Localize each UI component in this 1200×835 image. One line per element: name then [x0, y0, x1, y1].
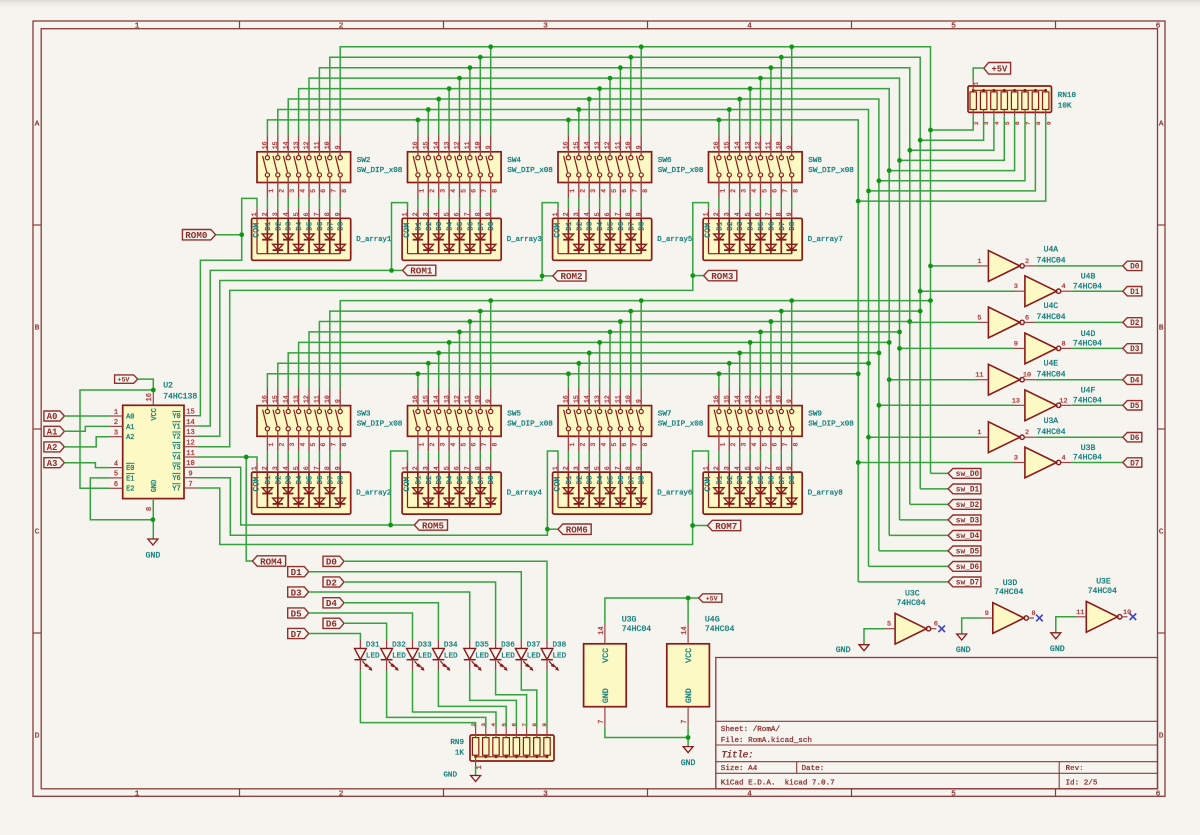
svg-text:SW8: SW8: [808, 157, 822, 165]
svg-text:U4A: U4A: [1044, 246, 1059, 255]
svg-text:D1: D1: [265, 475, 273, 484]
svg-text:1: 1: [419, 443, 426, 447]
svg-text:5: 5: [293, 466, 300, 470]
svg-text:3: 3: [289, 189, 296, 193]
svg-text:5: 5: [611, 443, 618, 447]
svg-text:9: 9: [1014, 340, 1018, 348]
label D6 (output): [1123, 433, 1142, 442]
svg-text:6: 6: [511, 723, 518, 727]
svg-text:A: A: [1159, 121, 1164, 129]
svg-text:6: 6: [1156, 23, 1161, 31]
svg-text:SW_DIP_x08: SW_DIP_x08: [658, 167, 704, 175]
svg-text:SW_DIP_x08: SW_DIP_x08: [808, 167, 854, 175]
svg-text:A0: A0: [126, 413, 134, 421]
diode array D_array4: [402, 462, 543, 514]
svg-text:7: 7: [782, 443, 789, 447]
svg-text:4: 4: [734, 466, 741, 470]
wire inverter output D0: [1035, 265, 1123, 267]
svg-text:D7: D7: [478, 476, 486, 485]
diode array D_array8: [703, 462, 843, 514]
svg-text:Y7: Y7: [172, 485, 180, 493]
svg-text:5: 5: [1004, 121, 1011, 125]
svg-text:KiCad E.D.A. kicad 7.0.7: KiCad E.D.A. kicad 7.0.7: [721, 779, 835, 787]
LED D36: [490, 640, 516, 671]
svg-text:11: 11: [314, 141, 321, 149]
svg-text:15: 15: [272, 141, 279, 149]
svg-text:5: 5: [443, 466, 450, 470]
svg-text:sw_D0: sw_D0: [956, 471, 980, 479]
svg-text:1: 1: [268, 189, 275, 193]
svg-text:D1: D1: [1130, 289, 1140, 297]
svg-text:SW_DIP_x08: SW_DIP_x08: [658, 421, 704, 429]
svg-text:16: 16: [563, 141, 570, 149]
label D0 (to LED): [323, 556, 344, 566]
svg-text:13: 13: [443, 395, 450, 403]
svg-text:Y2: Y2: [172, 434, 180, 442]
svg-text:4: 4: [433, 212, 440, 216]
svg-text:D7: D7: [327, 222, 335, 231]
junction +5V branch: [151, 388, 156, 393]
svg-text:14: 14: [433, 395, 440, 403]
svg-text:Y0: Y0: [172, 413, 180, 421]
svg-text:D_array2: D_array2: [356, 490, 391, 498]
svg-text:D3: D3: [737, 222, 745, 231]
svg-text:Y6: Y6: [172, 475, 180, 483]
svg-text:12: 12: [755, 395, 762, 403]
wire bus sw_D1 row2: [330, 311, 920, 388]
svg-text:sw_D5: sw_D5: [956, 549, 980, 557]
svg-text:SW9: SW9: [808, 411, 822, 419]
DIP switch SW5: [408, 389, 554, 452]
svg-text:D7: D7: [628, 222, 636, 231]
svg-text:D3: D3: [436, 222, 444, 231]
wire Y5 net to ROM5 / D_array4 COM: [197, 467, 391, 525]
svg-text:D8: D8: [639, 222, 647, 231]
svg-text:8: 8: [475, 212, 482, 216]
svg-text:6: 6: [621, 443, 628, 447]
svg-text:D: D: [35, 733, 40, 741]
label ROM5: [414, 520, 447, 530]
svg-text:4: 4: [282, 212, 289, 216]
junction GND units: [686, 735, 691, 740]
svg-text:74HC04: 74HC04: [705, 625, 735, 634]
svg-text:7: 7: [331, 443, 338, 447]
svg-text:U4B: U4B: [1081, 273, 1096, 282]
svg-text:8: 8: [776, 466, 783, 470]
svg-text:U4C: U4C: [1044, 302, 1059, 311]
svg-text:D6: D6: [618, 476, 626, 485]
svg-text:6: 6: [604, 466, 611, 470]
svg-text:11: 11: [464, 141, 471, 149]
resistor network RN9 1K: [450, 723, 554, 770]
svg-text:D6: D6: [317, 476, 325, 485]
svg-text:D4: D4: [447, 221, 455, 230]
wire bus sw_D5 row2: [288, 353, 879, 389]
wire RN10 pin9 to sw_D7: [858, 116, 1045, 201]
svg-text:7: 7: [314, 212, 321, 216]
wire bus sw_D5 row1: [288, 99, 879, 551]
svg-text:D38: D38: [553, 642, 567, 650]
svg-text:4: 4: [450, 443, 457, 447]
label A1: [44, 426, 65, 436]
wire sw_D1 to inverter input: [920, 290, 1014, 292]
svg-text:D6: D6: [467, 476, 475, 485]
wire Y7 net to ROM7 / D_array8 COM: [197, 488, 692, 545]
svg-text:SW6: SW6: [658, 157, 672, 165]
svg-text:D3: D3: [286, 222, 294, 231]
label D2 (output): [1123, 318, 1142, 327]
svg-text:13: 13: [186, 429, 194, 437]
wire to label sw_D4: [889, 534, 948, 536]
svg-text:74HC138: 74HC138: [163, 392, 197, 401]
svg-text:11: 11: [1076, 609, 1084, 617]
svg-text:3: 3: [289, 443, 296, 447]
IC U2 74HC138 decoder: [110, 382, 198, 512]
svg-text:D7: D7: [779, 476, 787, 485]
svg-text:2: 2: [262, 466, 269, 470]
svg-text:9: 9: [635, 399, 642, 403]
wire U2 GND / E1: [90, 478, 153, 520]
svg-text:1: 1: [720, 189, 727, 193]
title block: [716, 658, 1158, 789]
ground symbol U3E: [1051, 633, 1061, 639]
LED D38: [541, 640, 567, 671]
svg-text:U3C: U3C: [905, 590, 920, 599]
wire bus sw_D2 row1: [319, 68, 909, 505]
svg-text:11: 11: [314, 395, 321, 403]
svg-text:1: 1: [402, 212, 409, 216]
no-connect U3C output: [938, 625, 945, 632]
svg-text:8: 8: [642, 189, 649, 193]
svg-text:D5: D5: [1130, 403, 1140, 411]
svg-text:ROM3: ROM3: [711, 271, 734, 282]
svg-text:13: 13: [594, 395, 601, 403]
svg-text:7: 7: [314, 466, 321, 470]
svg-text:2: 2: [563, 466, 570, 470]
svg-text:8: 8: [324, 466, 331, 470]
svg-text:2: 2: [563, 212, 570, 216]
wire to label sw_D2: [910, 503, 948, 505]
diode array D_array5: [552, 208, 692, 260]
svg-text:D4: D4: [748, 221, 756, 230]
svg-text:74HC04: 74HC04: [1037, 313, 1066, 322]
svg-text:D6: D6: [467, 222, 475, 231]
inverter U3E 74HC04: [1076, 578, 1132, 633]
wire inverter output D5: [1072, 404, 1123, 406]
svg-text:1: 1: [569, 443, 576, 447]
svg-text:U4G: U4G: [705, 616, 720, 625]
svg-text:GND: GND: [443, 772, 457, 780]
svg-text:9: 9: [635, 145, 642, 149]
svg-text:SW_DIP_x08: SW_DIP_x08: [507, 167, 553, 175]
svg-text:9: 9: [485, 212, 492, 216]
svg-text:VCC: VCC: [602, 648, 611, 663]
wire sw_D5 to inverter input: [879, 404, 1015, 406]
svg-text:D3: D3: [291, 587, 303, 598]
svg-text:COM: COM: [251, 477, 261, 492]
svg-text:7: 7: [765, 212, 772, 216]
wire A1 to U2: [64, 426, 109, 431]
svg-text:A2: A2: [47, 443, 58, 453]
svg-text:12: 12: [755, 141, 762, 149]
wire RN10 pin3 to sw_D1: [920, 116, 983, 140]
svg-text:2: 2: [262, 212, 269, 216]
label D7 (to LED): [288, 628, 309, 638]
svg-text:14: 14: [583, 141, 590, 149]
label D2 (to LED): [323, 577, 344, 587]
svg-text:1: 1: [476, 765, 484, 769]
svg-text:D7: D7: [1130, 460, 1140, 468]
junction GND: [151, 517, 156, 522]
svg-text:7: 7: [615, 212, 622, 216]
svg-text:9: 9: [635, 212, 642, 216]
svg-text:2: 2: [713, 466, 720, 470]
svg-text:D2: D2: [275, 222, 283, 231]
inverter U3A 74HC04: [977, 417, 1065, 453]
svg-text:5: 5: [310, 443, 317, 447]
svg-text:3: 3: [590, 443, 597, 447]
svg-text:D5: D5: [307, 222, 315, 231]
svg-text:D3: D3: [1130, 346, 1140, 354]
DIP switch SW6: [558, 135, 704, 198]
svg-text:4: 4: [282, 466, 289, 470]
svg-text:2: 2: [339, 23, 344, 31]
svg-text:1: 1: [977, 429, 981, 437]
svg-text:7: 7: [1025, 121, 1032, 125]
svg-text:4: 4: [734, 212, 741, 216]
svg-text:D34: D34: [444, 642, 458, 650]
svg-text:U4E: U4E: [1044, 359, 1059, 368]
label A2: [44, 442, 65, 452]
wire bus sw_D0 row1: [340, 47, 930, 474]
svg-text:COM: COM: [703, 223, 713, 238]
svg-text:16: 16: [412, 395, 419, 403]
wire LED D32 cathode to RN9 pin3: [387, 671, 486, 728]
svg-text:5: 5: [951, 790, 956, 798]
svg-text:1K: 1K: [455, 749, 465, 757]
svg-text:LED: LED: [392, 652, 406, 660]
svg-text:D4: D4: [597, 221, 605, 230]
svg-text:ROM5: ROM5: [422, 520, 445, 531]
svg-text:3: 3: [983, 121, 990, 125]
svg-text:D31: D31: [366, 642, 380, 650]
svg-text:1: 1: [251, 466, 258, 470]
svg-text:COM: COM: [552, 477, 562, 492]
label D1 (to LED): [288, 567, 309, 577]
svg-text:D6: D6: [768, 222, 776, 231]
wire to label sw_D5: [879, 550, 948, 552]
power label +5V (units): [699, 594, 722, 602]
no-connect U3E output: [1130, 614, 1137, 621]
svg-text:7: 7: [464, 466, 471, 470]
svg-text:3: 3: [724, 212, 731, 216]
svg-text:3: 3: [423, 466, 430, 470]
svg-text:3: 3: [440, 443, 447, 447]
svg-text:8: 8: [642, 443, 649, 447]
svg-text:9: 9: [485, 466, 492, 470]
svg-text:C: C: [1159, 529, 1164, 537]
label ROM1: [403, 265, 436, 275]
label ROM2: [553, 271, 586, 281]
svg-text:15: 15: [724, 141, 731, 149]
svg-text:7: 7: [464, 212, 471, 216]
label ROM0: [182, 230, 215, 240]
svg-text:A1: A1: [126, 424, 134, 432]
svg-text:9: 9: [334, 145, 341, 149]
svg-text:4: 4: [583, 212, 590, 216]
svg-text:4: 4: [747, 23, 752, 31]
svg-text:3: 3: [480, 723, 487, 727]
svg-text:sw_D4: sw_D4: [956, 533, 980, 541]
svg-text:COM: COM: [703, 477, 713, 492]
svg-text:U3G: U3G: [622, 616, 637, 625]
junction +5V units: [686, 596, 691, 601]
LED D31: [355, 640, 381, 671]
svg-text:D3: D3: [286, 476, 294, 485]
svg-text:6: 6: [772, 189, 779, 193]
svg-text:D2: D2: [727, 476, 735, 485]
svg-text:D5: D5: [291, 608, 303, 619]
svg-text:16: 16: [713, 141, 720, 149]
wire sw_D0 to inverter input: [931, 265, 979, 267]
svg-text:D1: D1: [415, 221, 423, 230]
svg-text:1: 1: [977, 258, 981, 266]
svg-text:15: 15: [423, 395, 430, 403]
label sw_D2: [948, 500, 981, 510]
svg-text:2: 2: [412, 466, 419, 470]
svg-text:SW_DIP_x08: SW_DIP_x08: [357, 421, 403, 429]
svg-text:sw_D1: sw_D1: [956, 487, 980, 495]
svg-text:10: 10: [1023, 372, 1031, 380]
svg-text:U4D: U4D: [1081, 330, 1096, 339]
svg-text:D5: D5: [608, 476, 616, 485]
svg-text:2: 2: [412, 212, 419, 216]
svg-text:9: 9: [985, 610, 989, 618]
svg-text:A0: A0: [47, 412, 58, 422]
wire inverter output D1: [1072, 290, 1123, 292]
svg-text:D1: D1: [716, 221, 724, 230]
inverter U4E 74HC04: [975, 359, 1065, 395]
svg-text:2: 2: [114, 419, 118, 427]
svg-text:COM: COM: [251, 223, 261, 238]
svg-text:10: 10: [625, 141, 632, 149]
svg-text:GND: GND: [151, 480, 159, 492]
svg-text:D6: D6: [326, 619, 337, 630]
wire LED D35 cathode to RN9 pin6: [470, 671, 517, 728]
svg-text:10: 10: [324, 141, 331, 149]
wire to label sw_D0: [931, 472, 949, 474]
svg-text:14: 14: [282, 141, 289, 149]
svg-text:D4: D4: [597, 475, 605, 484]
svg-text:SW_DIP_x08: SW_DIP_x08: [357, 167, 403, 175]
svg-text:12: 12: [454, 395, 461, 403]
svg-text:3: 3: [741, 189, 748, 193]
svg-text:2: 2: [279, 443, 286, 447]
svg-text:74HC04: 74HC04: [1088, 587, 1117, 596]
wire +5V to U2 VCC and E2: [138, 379, 154, 392]
svg-text:6: 6: [320, 443, 327, 447]
svg-text:SW7: SW7: [658, 411, 672, 419]
wire ground to U3D input: [962, 618, 983, 634]
svg-text:ROM4: ROM4: [260, 556, 283, 567]
svg-text:13: 13: [443, 141, 450, 149]
diode array D_array1: [251, 208, 392, 260]
svg-text:LED: LED: [366, 652, 380, 660]
svg-text:2: 2: [279, 189, 286, 193]
svg-text:12: 12: [303, 141, 310, 149]
svg-text:9: 9: [541, 723, 548, 727]
wire inverter output D4: [1035, 379, 1123, 381]
svg-text:sw_D6: sw_D6: [956, 564, 980, 572]
svg-text:16: 16: [262, 141, 269, 149]
svg-text:8: 8: [341, 189, 348, 193]
svg-text:Y1: Y1: [172, 423, 180, 431]
svg-text:LED: LED: [501, 652, 515, 660]
svg-text:74HC04: 74HC04: [1073, 282, 1102, 291]
label D4 (to LED): [323, 598, 344, 608]
svg-text:LED: LED: [444, 652, 458, 660]
wire RN10 pin5 to sw_D3: [900, 116, 1005, 160]
svg-text:D_array5: D_array5: [657, 236, 692, 244]
wire bus sw_D1 row1: [330, 57, 920, 489]
wire Y0 net to ROM0 / D_array1 COM: [197, 235, 242, 416]
svg-text:B: B: [1159, 325, 1164, 333]
svg-text:9: 9: [1045, 121, 1052, 125]
svg-text:9: 9: [786, 212, 793, 216]
svg-text:11: 11: [186, 450, 194, 458]
svg-text:3: 3: [440, 189, 447, 193]
svg-text:8: 8: [1032, 610, 1036, 618]
svg-text:12: 12: [303, 395, 310, 403]
svg-text:2: 2: [1025, 429, 1029, 437]
svg-text:D33: D33: [418, 642, 432, 650]
wire LED D36 cathode to RN9 pin7: [496, 671, 527, 728]
svg-text:74HC04: 74HC04: [1073, 454, 1102, 463]
svg-text:D2: D2: [576, 222, 584, 231]
svg-text:E2: E2: [126, 486, 134, 494]
svg-text:SW3: SW3: [357, 411, 371, 419]
wire LED D31 cathode to RN9 pin2: [360, 671, 475, 728]
svg-text:GND: GND: [685, 688, 694, 703]
svg-text:11: 11: [615, 395, 622, 403]
svg-text:4: 4: [600, 189, 607, 193]
wire Y2 net to ROM2 / D_array5 COM: [197, 276, 542, 436]
svg-text:5: 5: [114, 471, 118, 479]
svg-text:6: 6: [1014, 121, 1021, 125]
svg-text:LED: LED: [418, 652, 432, 660]
svg-text:D3: D3: [436, 476, 444, 485]
svg-text:D3: D3: [587, 222, 595, 231]
wire Y1 net to ROM1 / D_array3 COM: [197, 270, 391, 426]
svg-text:2: 2: [580, 189, 587, 193]
svg-text:10K: 10K: [1058, 102, 1072, 110]
svg-text:3: 3: [590, 189, 597, 193]
wire Y4 net to ROM4 / D_array2 COM: [197, 457, 257, 462]
svg-text:4: 4: [299, 189, 306, 193]
svg-text:2: 2: [429, 189, 436, 193]
inverter U3C 74HC04: [884, 590, 938, 645]
svg-text:3: 3: [272, 212, 279, 216]
svg-text:6: 6: [772, 443, 779, 447]
svg-text:10: 10: [475, 141, 482, 149]
svg-text:11: 11: [765, 141, 772, 149]
svg-text:11: 11: [975, 372, 983, 380]
svg-text:16: 16: [262, 395, 269, 403]
svg-text:+5V: +5V: [706, 595, 718, 602]
svg-text:5: 5: [977, 314, 981, 322]
svg-text:sw_D7: sw_D7: [956, 580, 980, 588]
svg-text:A2: A2: [126, 434, 134, 442]
